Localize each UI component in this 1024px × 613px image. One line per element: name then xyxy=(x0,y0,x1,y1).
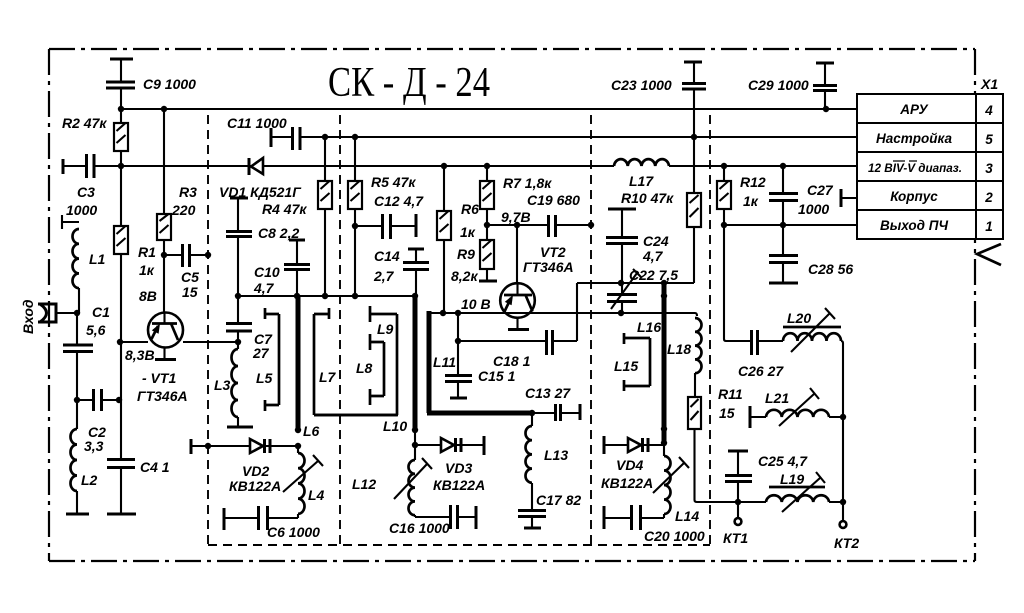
capacitor C4 xyxy=(120,342,122,459)
resistor R9 xyxy=(486,225,488,281)
svg-text:27: 27 xyxy=(252,345,270,361)
svg-text:С1: С1 xyxy=(92,304,110,320)
connector X1 table frame xyxy=(857,94,1003,239)
svg-text:VD2: VD2 xyxy=(242,463,269,479)
svg-text:2: 2 xyxy=(984,190,993,205)
wire C5 y=255 xyxy=(164,254,208,256)
svg-text:1000: 1000 xyxy=(66,202,97,218)
inductor L2 xyxy=(76,400,78,429)
wire C26 to L20 xyxy=(758,340,783,342)
adjuster arrow L4 xyxy=(283,455,323,492)
svg-text:10 В: 10 В xyxy=(461,296,491,312)
adjuster arrow L14 xyxy=(653,457,689,493)
svg-text:С13 27: С13 27 xyxy=(525,385,571,401)
svg-text:L18: L18 xyxy=(667,341,691,357)
capacitor C29 top bar xyxy=(816,62,834,65)
svg-text:L19: L19 xyxy=(780,471,804,487)
svg-text:С19 680: С19 680 xyxy=(527,192,580,208)
inductor L1 top hook xyxy=(62,215,79,229)
test point KT2 xyxy=(840,521,847,528)
svg-text:АРУ: АРУ xyxy=(899,102,928,117)
capacitor C29 xyxy=(824,63,826,85)
capacitor C13 right bar xyxy=(579,404,582,420)
svg-text:Настройка: Настройка xyxy=(876,131,953,146)
svg-text:С15 1: С15 1 xyxy=(478,368,516,384)
svg-text:VT2: VT2 xyxy=(540,244,566,260)
capacitor C14 top bar xyxy=(408,248,424,251)
svg-text:3: 3 xyxy=(985,161,993,176)
svg-text:1000: 1000 xyxy=(798,201,829,217)
svg-text:С11 1000: С11 1000 xyxy=(227,115,287,131)
svg-text:5,6: 5,6 xyxy=(86,322,106,338)
svg-text:1: 1 xyxy=(985,219,993,234)
winding L9 xyxy=(314,306,397,415)
wire VT1 emitter xyxy=(163,348,165,360)
svg-text:КВ122А: КВ122А xyxy=(601,475,653,491)
svg-text:L16: L16 xyxy=(637,319,661,335)
wire +12V bus y=166 left segment to C3 xyxy=(63,165,86,167)
transistor VT2 xyxy=(500,283,535,318)
capacitor C12 right bar xyxy=(415,214,418,237)
svg-text:L13: L13 xyxy=(544,447,568,463)
winding L16 coupling line xyxy=(662,283,667,443)
svg-text:С28 56: С28 56 xyxy=(808,261,853,277)
winding L6 coupling line xyxy=(296,296,301,430)
svg-text:15: 15 xyxy=(182,284,198,300)
output fork symbol xyxy=(977,244,1001,265)
svg-text:L17: L17 xyxy=(629,173,654,189)
svg-text:СК - Д - 24: СК - Д - 24 xyxy=(328,60,490,106)
varicap VD4 left bar xyxy=(603,436,606,454)
capacitor C11 xyxy=(271,136,292,138)
svg-text:С24: С24 xyxy=(643,233,669,249)
capacitor C2 xyxy=(94,389,102,411)
ground bar C28 xyxy=(769,282,798,285)
svg-text:L21: L21 xyxy=(765,390,789,406)
varicap VD2 КВ122А xyxy=(250,439,270,453)
capacitor C28 xyxy=(782,225,784,255)
svg-text:R2 47к: R2 47к xyxy=(62,115,107,131)
capacitor C8 xyxy=(237,198,239,231)
capacitor C18 xyxy=(547,330,553,355)
resistor R4 xyxy=(318,181,332,209)
svg-text:4: 4 xyxy=(984,103,993,118)
svg-text:12 ВIV-V диапаз.: 12 ВIV-V диапаз. xyxy=(868,161,962,175)
ground bar VT2 emitter xyxy=(508,328,529,331)
wire C18 riser x=577 xyxy=(576,283,578,341)
wire R11 to output coil xyxy=(695,429,712,502)
shield partition x=208 xyxy=(207,115,209,545)
svg-text:L14: L14 xyxy=(675,508,699,524)
input connector Вход xyxy=(38,304,56,322)
svg-text:1к: 1к xyxy=(460,224,476,240)
svg-text:С18 1: С18 1 xyxy=(493,353,531,369)
capacitor C12 xyxy=(383,214,391,239)
wire +12V bus y=166 right segment after L17 xyxy=(669,165,857,167)
svg-text:С5: С5 xyxy=(181,269,199,285)
transistor VT1 xyxy=(148,313,183,348)
svg-text:С20 1000: С20 1000 xyxy=(644,528,705,544)
shield partition x=710 xyxy=(709,115,711,545)
resistor R10 column xyxy=(693,137,695,283)
wire VT2 collector xyxy=(516,225,518,285)
wire C12 y=226 xyxy=(355,225,416,227)
capacitor C27 xyxy=(782,166,784,193)
outer dash-dot border right xyxy=(974,49,976,561)
resistor R7 xyxy=(480,181,494,209)
inductor L14 variable xyxy=(663,443,665,456)
wire C16 y=517 xyxy=(415,516,476,518)
wire C18 y=341 xyxy=(458,340,577,342)
svg-text:8В: 8В xyxy=(139,288,157,304)
winding L11 xyxy=(427,311,532,413)
svg-text:R11: R11 xyxy=(718,386,743,402)
capacitor C23 xyxy=(693,62,695,83)
winding L5 xyxy=(265,308,279,411)
svg-text:С17 82: С17 82 xyxy=(536,492,581,508)
resistor R10 xyxy=(687,193,701,227)
adjuster arrow L20 xyxy=(791,308,835,352)
wire VT2 emitter xyxy=(516,318,518,330)
capacitor C24 xyxy=(621,209,623,237)
svg-text:L10: L10 xyxy=(383,418,407,434)
capacitor C23 top bar xyxy=(684,61,702,64)
ground bar C4 xyxy=(107,513,136,516)
svg-text:L4: L4 xyxy=(308,487,325,503)
adjuster arrow L12 xyxy=(394,458,432,499)
svg-text:L9: L9 xyxy=(377,321,394,337)
resistor R5 xyxy=(348,181,362,209)
svg-text:1к: 1к xyxy=(139,262,155,278)
wire L20 down to KT2 column xyxy=(841,341,843,521)
svg-text:С26 27: С26 27 xyxy=(738,363,784,379)
capacitor C24 top bar xyxy=(608,208,636,211)
svg-text:VD3: VD3 xyxy=(445,460,472,476)
svg-text:Вход: Вход xyxy=(20,299,36,334)
resistor R1 xyxy=(114,226,128,254)
svg-text:4,7: 4,7 xyxy=(642,248,664,264)
varicap VD4 КВ122А xyxy=(628,438,648,452)
capacitor C25 xyxy=(737,451,739,475)
capacitor C19 xyxy=(549,215,556,237)
svg-text:С4 1: С4 1 xyxy=(140,459,170,475)
wire L21 xyxy=(750,416,843,418)
wire VT1 collector to C7 node y=342 xyxy=(183,341,238,343)
svg-text:L11: L11 xyxy=(433,354,456,370)
adjuster arrow L19 xyxy=(782,472,825,512)
svg-text:С29 1000: С29 1000 xyxy=(748,77,809,93)
resistor R6 xyxy=(437,211,451,240)
svg-text:L2: L2 xyxy=(81,472,98,488)
svg-text:R7 1,8к: R7 1,8к xyxy=(503,175,552,191)
core bar L19 xyxy=(769,486,825,489)
svg-text:ГТ346А: ГТ346А xyxy=(523,259,574,275)
svg-text:L6: L6 xyxy=(303,423,320,439)
resistor R1 column xyxy=(120,166,122,342)
shield partition x=591 xyxy=(590,115,592,545)
inductor L13 xyxy=(531,413,533,426)
wire input to node xyxy=(56,312,78,314)
diode VD1 КД521Г xyxy=(249,158,263,175)
svg-text:КТ2: КТ2 xyxy=(834,535,859,551)
resistor R11 xyxy=(688,397,701,429)
svg-text:8,2к: 8,2к xyxy=(451,268,478,284)
wire VD4 y=445 xyxy=(604,444,664,446)
outer dash-dot border left xyxy=(48,49,50,561)
inductor L21 variable xyxy=(766,410,829,417)
inductor L12 variable xyxy=(414,445,416,460)
svg-text:X1: X1 xyxy=(980,76,998,92)
capacitor C20 xyxy=(604,517,664,519)
inductor L3 xyxy=(237,342,239,349)
capacitor C9 top bar xyxy=(110,58,133,61)
svg-text:8,3В: 8,3В xyxy=(125,347,155,363)
ground bar C15 xyxy=(450,397,467,400)
resistor R5 column xyxy=(354,137,356,296)
wire C19 y=225 xyxy=(487,224,591,226)
wire AGC bus y=109 xyxy=(121,108,857,110)
winding L10 coupling line xyxy=(413,296,418,430)
capacitor C16 xyxy=(451,505,458,529)
svg-text:R12: R12 xyxy=(740,174,766,190)
svg-text:L1: L1 xyxy=(89,251,106,267)
winding L15 xyxy=(624,333,650,391)
svg-text:С23 1000: С23 1000 xyxy=(611,77,672,93)
svg-text:R10 47к: R10 47к xyxy=(621,190,674,206)
svg-text:КВ122А: КВ122А xyxy=(229,478,281,494)
capacitor C17 xyxy=(518,511,546,517)
capacitor C10 top bar xyxy=(289,239,305,242)
capacitor C20 left bar xyxy=(603,506,606,529)
ground bar L2 xyxy=(66,513,89,516)
wire varicap feed y=283 xyxy=(577,282,694,284)
svg-text:С6 1000: С6 1000 xyxy=(267,524,320,540)
inductor L19 variable xyxy=(766,495,829,502)
wire VD2 y=446 xyxy=(191,445,298,447)
capacitor C13 xyxy=(556,404,561,421)
svg-text:L12: L12 xyxy=(352,476,376,492)
ground bar Корпус stub xyxy=(840,189,843,207)
wire tuning bus y=137 xyxy=(301,136,857,138)
capacitor C8 top bar xyxy=(230,197,248,200)
wire R12 output column xyxy=(724,225,751,341)
svg-text:15: 15 xyxy=(719,405,735,421)
svg-text:L3: L3 xyxy=(214,377,231,393)
inductor L18 xyxy=(695,318,702,373)
capacitor C25 top bar xyxy=(728,450,748,453)
resistor R6 column xyxy=(443,166,445,313)
capacitor C5 xyxy=(183,244,190,267)
outer dash-dot border top xyxy=(49,48,975,50)
capacitor C3 xyxy=(87,154,95,178)
shield partition x=340 xyxy=(339,115,341,545)
capacitor C3 left bar xyxy=(62,159,65,174)
inductor L17 xyxy=(614,159,669,166)
ground bar L3 xyxy=(227,426,253,429)
svg-text:R5 47к: R5 47к xyxy=(371,174,416,190)
ground bar VT1 emitter xyxy=(155,358,176,361)
varicap VD3 КВ122А xyxy=(441,438,461,452)
svg-text:2,7: 2,7 xyxy=(373,268,395,284)
svg-text:С14: С14 xyxy=(374,248,400,264)
svg-text:С22 7,5: С22 7,5 xyxy=(629,267,678,283)
test point KT1 xyxy=(737,502,739,518)
resistor R4 column xyxy=(324,137,326,296)
capacitor C15 xyxy=(457,313,459,375)
svg-text:С3: С3 xyxy=(77,184,95,200)
svg-text:220: 220 xyxy=(171,202,196,218)
trimmer capacitor C22 xyxy=(621,283,623,294)
wire VT1 base y=342 xyxy=(121,341,148,343)
connector X1 row labels xyxy=(868,102,993,234)
wire VD3 y=445 xyxy=(415,444,484,446)
inductor L4 variable xyxy=(297,446,299,453)
wire L1 to input node xyxy=(78,288,80,313)
svg-text:L8: L8 xyxy=(356,360,373,376)
svg-text:1к: 1к xyxy=(743,193,759,209)
capacitor C9 xyxy=(120,59,122,81)
wire C2 y=400 xyxy=(77,399,121,401)
resistor R12 column xyxy=(723,166,725,225)
winding L7 xyxy=(314,308,329,415)
varicap VD2 left bar xyxy=(190,439,193,454)
svg-text:R3: R3 xyxy=(179,184,197,200)
wire collector output y=313 xyxy=(429,313,697,316)
svg-text:L20: L20 xyxy=(787,310,811,326)
svg-text:L5: L5 xyxy=(256,370,273,386)
ground bar R9 xyxy=(479,280,497,283)
wire C13 y=413 xyxy=(532,412,580,414)
resistor R2 xyxy=(120,109,122,166)
svg-text:КТ1: КТ1 xyxy=(723,530,748,546)
capacitor C26 xyxy=(752,330,758,355)
svg-text:R1: R1 xyxy=(138,244,156,260)
resistor R7 column xyxy=(486,166,488,225)
capacitor C7 xyxy=(237,296,239,323)
svg-text:С10: С10 xyxy=(254,264,280,280)
svg-text:L15: L15 xyxy=(614,358,638,374)
svg-text:КВ122А: КВ122А xyxy=(433,477,485,493)
capacitor C6 left bar xyxy=(223,508,226,530)
svg-text:- VT1: - VT1 xyxy=(142,370,176,386)
svg-text:ГТ346А: ГТ346А xyxy=(137,388,188,404)
svg-text:3,3: 3,3 xyxy=(84,438,104,454)
svg-text:С9 1000: С9 1000 xyxy=(143,76,196,92)
wire IF output y=225 xyxy=(724,224,857,226)
ground stub Корпус row xyxy=(841,197,858,199)
capacitor C1 xyxy=(76,313,78,344)
shield partition bottom y=545 xyxy=(208,544,710,546)
inductor L20 variable xyxy=(783,333,841,341)
wire output y=502 xyxy=(711,501,843,503)
wire node bus y=296 xyxy=(238,295,416,297)
winding L8 xyxy=(370,334,384,405)
winding L21 left bar xyxy=(749,406,752,428)
svg-text:С12 4,7: С12 4,7 xyxy=(374,193,424,209)
adjuster arrow L21 xyxy=(779,388,819,426)
resistor R3 xyxy=(157,214,171,240)
varicap VD3 right bar xyxy=(483,436,486,455)
inductor L1 xyxy=(72,229,79,288)
svg-text:С16 1000: С16 1000 xyxy=(389,520,450,536)
svg-text:VD4: VD4 xyxy=(616,457,643,473)
wire +12V bus y=166 main segment xyxy=(95,165,614,167)
capacitor C10 xyxy=(296,240,298,264)
outer dash-dot border bottom xyxy=(49,560,975,562)
svg-text:4,7: 4,7 xyxy=(253,280,275,296)
capacitor C6 xyxy=(224,517,298,519)
capacitor C14 xyxy=(415,249,417,262)
svg-text:С27: С27 xyxy=(807,182,834,198)
svg-text:С25 4,7: С25 4,7 xyxy=(758,453,808,469)
svg-text:5: 5 xyxy=(985,132,993,147)
core bar L20 xyxy=(783,326,841,329)
resistor R3 column xyxy=(163,109,165,313)
capacitor C16 right bar xyxy=(475,506,478,529)
svg-text:R9: R9 xyxy=(457,246,475,262)
resistor R12 xyxy=(717,181,731,209)
capacitor C11 left bar xyxy=(270,128,273,147)
ground bar C17 xyxy=(524,527,541,530)
wire L7-L9 bottom stub y=415 xyxy=(314,414,398,417)
svg-text:R6: R6 xyxy=(461,201,479,217)
svg-text:L7: L7 xyxy=(319,369,337,385)
svg-text:Корпус: Корпус xyxy=(890,189,938,204)
svg-text:Выход ПЧ: Выход ПЧ xyxy=(880,218,949,233)
svg-text:R4 47к: R4 47к xyxy=(262,201,307,217)
